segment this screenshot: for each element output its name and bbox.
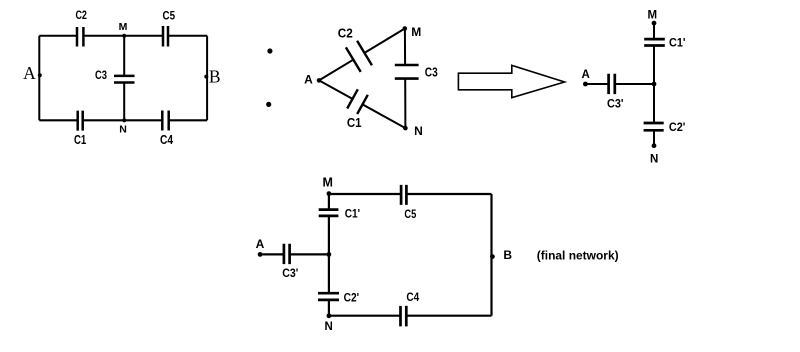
svg-text:A: A xyxy=(256,237,265,251)
svg-text:N: N xyxy=(119,124,127,136)
svg-text:C4: C4 xyxy=(160,133,173,147)
svg-text:N: N xyxy=(325,321,333,333)
svg-text:N: N xyxy=(650,154,658,166)
svg-text:B: B xyxy=(503,248,512,262)
svg-text:C3': C3' xyxy=(282,266,298,280)
svg-text:A: A xyxy=(304,72,313,86)
svg-text:C3: C3 xyxy=(425,65,438,79)
svg-text:C2': C2' xyxy=(344,291,360,305)
svg-text:B: B xyxy=(209,67,221,87)
svg-text:(final network): (final network) xyxy=(537,249,619,263)
svg-text:A: A xyxy=(582,69,590,81)
svg-text:C2: C2 xyxy=(75,10,87,22)
svg-text:C5: C5 xyxy=(404,207,416,221)
svg-text:C2: C2 xyxy=(338,26,353,40)
svg-text:M: M xyxy=(411,25,421,39)
svg-text:C4: C4 xyxy=(406,290,419,304)
svg-text:M: M xyxy=(648,9,658,21)
svg-text:C2': C2' xyxy=(669,120,686,134)
svg-text:C1: C1 xyxy=(74,133,86,147)
svg-text:A: A xyxy=(23,63,36,83)
svg-text:C1': C1' xyxy=(669,36,686,50)
svg-text:C1: C1 xyxy=(347,116,362,130)
svg-text:C3': C3' xyxy=(607,96,624,110)
svg-text:C3: C3 xyxy=(95,68,107,82)
svg-text:M: M xyxy=(322,176,332,190)
svg-text:N: N xyxy=(414,124,423,138)
svg-text:C5: C5 xyxy=(163,11,176,23)
svg-text:C1': C1' xyxy=(345,207,360,221)
svg-text:M: M xyxy=(119,21,128,33)
